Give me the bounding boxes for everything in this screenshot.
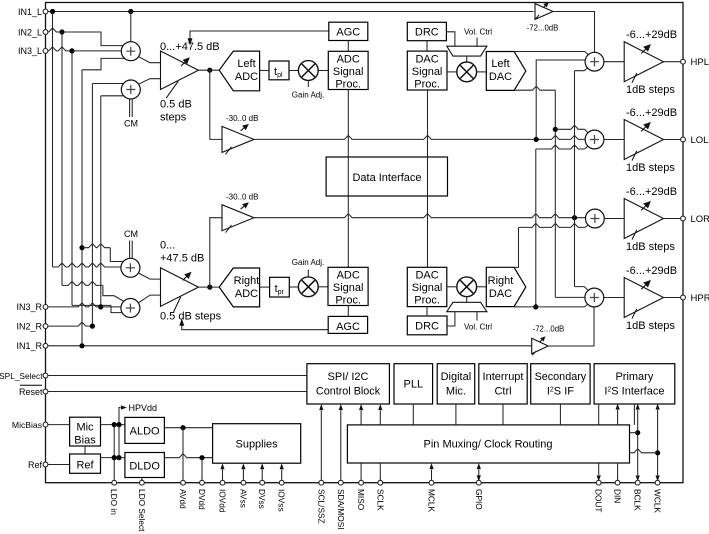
stub vol ctrl left (476, 38, 478, 47)
wire IN3_R (48, 303, 101, 307)
svg-text:Left: Left (491, 58, 509, 70)
svg-text:Interrupt: Interrupt (483, 371, 524, 383)
wire Reset to control block (48, 391, 307, 393)
left PGA amplifier 0..+47.5dB (161, 51, 199, 90)
right analog bypass amp -30..0dB (222, 205, 254, 231)
wire mixer4 out (139, 295, 161, 303)
node IN2_R junction (90, 324, 95, 329)
svg-text:Bias: Bias (74, 435, 96, 447)
wire IOVss into Supplies (281, 470, 283, 483)
bottom pin DVdd (200, 480, 205, 485)
pin Ref (43, 462, 48, 467)
wire mixer to HPR amp (604, 297, 625, 299)
wire IN1_R vertical bus (81, 70, 83, 346)
svg-text:PLL: PLL (404, 379, 424, 391)
svg-text:DVss: DVss (257, 489, 267, 509)
wire Secondary I2S to pin muxing (559, 404, 561, 425)
svg-text:CM: CM (124, 119, 138, 129)
output amplifier LOR -6..+29dB (624, 199, 663, 239)
wire IN1_R branch to right CM mixer (82, 244, 110, 248)
wire IN3_L vertical bus (71, 51, 73, 306)
wire IN1_L to -72dB amp (48, 11, 534, 13)
wire LDAC into HPR mixer (555, 296, 585, 298)
svg-text:0...: 0... (160, 240, 175, 252)
output amplifier HPR -6..+29dB (624, 278, 663, 318)
block Right DAC (486, 267, 526, 306)
svg-text:SCL/SSZ: SCL/SSZ (316, 489, 326, 524)
svg-text:DLDO: DLDO (129, 461, 160, 473)
svg-text:Right: Right (488, 275, 514, 287)
wire DIN lower (617, 463, 619, 483)
svg-text:Secondary: Secondary (535, 371, 587, 383)
block Mic Bias (70, 417, 101, 446)
block DRC (right) (407, 316, 447, 335)
input pin IN2_L (43, 30, 48, 35)
wire MAR to LOR mixer (254, 214, 585, 218)
svg-text:-6...+29dB: -6...+29dB (626, 186, 677, 198)
wire MicBias block to ALDO (101, 424, 125, 426)
svg-text:IOVss: IOVss (277, 489, 287, 512)
wire DVss into Supplies (261, 470, 263, 483)
svg-text:Left: Left (237, 58, 255, 70)
svg-text:SPL_Select: SPL_Select (0, 371, 43, 381)
wire Right DAC top out to LOR mixer (514, 227, 518, 267)
wire Ref block to DLDO (101, 457, 125, 459)
svg-text:-6...+29dB: -6...+29dB (626, 29, 677, 41)
bus MAL vertical to HPL (536, 60, 585, 139)
node WCLK tap (655, 450, 660, 455)
wire LDO in riser (113, 425, 115, 483)
LOR amp gain arrow (641, 206, 645, 210)
svg-text:WCLK: WCLK (653, 489, 663, 513)
pin MicBias (43, 422, 48, 427)
svg-text:DRC: DRC (415, 27, 439, 39)
block Ref (70, 454, 101, 473)
bus RDAC cross vertical (535, 149, 537, 307)
wire IN3_L (48, 47, 72, 51)
svg-text:Signal: Signal (412, 282, 443, 294)
bus MAR vertical (574, 71, 576, 287)
wire DACproc to multiplier (447, 71, 457, 73)
wire PGA2 to Right ADC (198, 286, 219, 288)
svg-text:Ref: Ref (28, 460, 43, 470)
wire MISO (360, 463, 362, 483)
svg-text:Signal: Signal (412, 66, 443, 78)
svg-text:DAC: DAC (489, 71, 512, 83)
svg-text:Reset: Reset (19, 387, 43, 397)
svg-text:-30..0 dB: -30..0 dB (226, 192, 258, 201)
svg-text:1dB steps: 1dB steps (626, 84, 675, 96)
wire Left DAC top out to HPL mixer (514, 52, 589, 56)
svg-text:DOUT: DOUT (594, 489, 604, 513)
right bypass amp arrow (241, 206, 244, 209)
wire multiplier to ADC proc (318, 70, 328, 72)
svg-text:-6...+29dB: -6...+29dB (626, 265, 677, 277)
svg-text:LOL: LOL (691, 135, 709, 146)
wire WCLK to pin muxing (630, 449, 658, 453)
output pin HPL (681, 59, 686, 64)
svg-text:Mic: Mic (76, 422, 94, 434)
wire LDAC into LOL mixer (555, 126, 584, 130)
svg-text:DIN: DIN (613, 489, 623, 503)
attenuator -72..0dB (IN1_R) (532, 338, 549, 354)
wire DACproc-R to multiplier (447, 286, 457, 288)
wire ADC to tpl (260, 70, 269, 72)
block Data Interface (326, 157, 447, 196)
svg-text:Data Interface: Data Interface (352, 172, 421, 184)
wire tpr to multiplier (289, 286, 298, 288)
wire BCLK to pin muxing (630, 432, 638, 434)
node IN3_R junction (98, 304, 103, 309)
wire IN1_R to left mixer1 (82, 58, 126, 69)
multiplier volume (right DAC) (457, 277, 477, 297)
wire bottom attenuator to HPR mixer (548, 307, 594, 346)
wire IN1_L vertical bus (52, 12, 54, 268)
wire IN2_L jog down (103, 285, 125, 302)
block Right ADC (219, 268, 259, 307)
bottom pin DOUT (596, 480, 601, 485)
wire cross into LOL mixer (536, 145, 585, 149)
svg-text:Signal: Signal (333, 66, 364, 78)
bus LDAC vertical (554, 90, 556, 297)
left analog bypass amp -30..0dB (222, 126, 254, 152)
wire SDA/MOSI (340, 411, 342, 483)
block Left DAC (486, 52, 526, 91)
svg-text:Mic.: Mic. (446, 386, 466, 398)
volume control trapezoid (left) (447, 46, 487, 56)
wire DOUT lower (598, 463, 600, 475)
wire Digital Mic to pin muxing (455, 404, 457, 425)
wire IN3_R to left CM mixer (101, 95, 126, 97)
wire IN3_L into mixer1 (72, 50, 126, 52)
summing mixer 1 (left PGA +) (121, 42, 140, 61)
wire IN2_R (48, 323, 93, 327)
left PGA gain arrow (181, 62, 185, 66)
output mixer HPL (585, 52, 604, 71)
svg-text:0.5 dB steps: 0.5 dB steps (160, 311, 222, 323)
input pin Reset (active low) (43, 389, 48, 394)
output mixer LOR (586, 209, 605, 228)
bottom pin BCLK (635, 480, 640, 485)
block t_pl interpolation (269, 61, 289, 80)
multiplier gain adj (right ADC) (298, 277, 318, 297)
bottom pin DVss (260, 480, 265, 485)
svg-text:DAC: DAC (415, 270, 438, 282)
wire PGA1 to bypass amp (210, 70, 222, 139)
svg-text:AVdd: AVdd (178, 489, 188, 509)
block Digital Mic (437, 364, 475, 404)
wire amp to HPR pin (664, 297, 684, 299)
node MAL to HPL branch (534, 137, 539, 142)
node DVdd tap (199, 455, 204, 460)
output mixer LOL (585, 130, 604, 149)
wire SCL/SSZ (320, 411, 322, 483)
block Primary I2S Interface (594, 364, 675, 404)
bottom pin MCLK (429, 480, 434, 485)
svg-text:HPL: HPL (691, 57, 709, 68)
HPR amp gain arrow (641, 285, 645, 289)
arrow LDO Select into DLDO (140, 478, 144, 484)
block AGC (left) (329, 22, 368, 40)
block SPI/I2C Control Block (307, 364, 390, 404)
wire mixer2 out (139, 79, 161, 85)
wire DRC-R to vol ctrl (447, 312, 455, 326)
bus ADC-L to Data Interface (347, 90, 349, 268)
bottom pin MISO (359, 480, 364, 485)
svg-text:IN1_R: IN1_R (16, 341, 42, 351)
svg-text:1dB steps: 1dB steps (626, 320, 675, 332)
wire IN3_L jog down (111, 305, 126, 312)
wire WCLK (657, 410, 659, 475)
block Left ADC (219, 51, 259, 91)
output pin LOR (681, 216, 686, 221)
svg-text:Ref: Ref (76, 460, 94, 472)
svg-text:IN1_L: IN1_L (18, 7, 42, 17)
input pin IN3_L (43, 49, 48, 54)
wire multiplier to Right DAC (477, 286, 487, 288)
summing mixer 3 (right CM) (121, 258, 140, 277)
svg-text:-30..0 dB: -30..0 dB (226, 114, 258, 123)
wire GPIO (478, 470, 480, 483)
svg-text:LDO Select: LDO Select (137, 489, 147, 532)
wire AVss into Supplies (242, 470, 244, 483)
bottom pin AVdd (181, 480, 186, 485)
wire multiplier to ADC proc right (318, 286, 328, 288)
svg-text:Control Block: Control Block (316, 386, 381, 398)
wire MAL to LOL mixer (254, 136, 585, 140)
bottom pin IOVdd (220, 480, 225, 485)
svg-text:IN2_R: IN2_R (16, 321, 42, 331)
block DRC (left) (407, 22, 446, 40)
svg-text:ADC: ADC (337, 270, 360, 282)
wire IN3_L cross to right mixer4 (72, 304, 111, 306)
svg-text:-6...+29dB: -6...+29dB (626, 107, 677, 119)
wire AVdd riser (182, 428, 184, 483)
wire Interrupt Ctrl to pin muxing (502, 404, 504, 425)
svg-text:Signal: Signal (333, 282, 364, 294)
svg-text:1dB steps: 1dB steps (626, 162, 675, 174)
wire IOVdd into Supplies (222, 470, 224, 483)
wire ADC to tpr (260, 286, 270, 288)
svg-text:DAC: DAC (489, 288, 512, 300)
wire IN2_R vertical bus (91, 84, 93, 327)
svg-text:MCLK: MCLK (427, 489, 437, 513)
output mixer HPR (585, 288, 604, 307)
wire DVdd riser (201, 458, 203, 483)
svg-text:BCLK: BCLK (633, 489, 643, 511)
arrow AGC-R control (179, 319, 184, 326)
bottom pin SDA/MOSI (338, 480, 343, 485)
wire IN1_L down to left mixer1 (130, 12, 132, 42)
wire Primary I2S to pin muxing (633, 404, 635, 425)
input pin IN1_L (43, 9, 48, 14)
wire DOUT upper (598, 404, 600, 425)
stub trapezoid to multiplier right (466, 297, 468, 303)
attenuator arrow bottom (540, 340, 542, 342)
stub trapezoid to multiplier (466, 56, 468, 62)
svg-text:Primary: Primary (615, 371, 653, 383)
svg-text:SDA/MOSI: SDA/MOSI (336, 489, 346, 530)
svg-text:IN2_L: IN2_L (18, 27, 42, 37)
right PGA gain arrow (183, 277, 187, 281)
svg-text:ADC: ADC (235, 288, 258, 300)
svg-text:DAC: DAC (415, 54, 438, 66)
node RDAC cross (533, 304, 538, 309)
node LDO/ALDO joints (112, 422, 117, 427)
stub gain adj left (307, 80, 309, 87)
svg-text:steps: steps (160, 112, 187, 124)
wire DLDO out to Supplies (164, 454, 212, 458)
svg-text:HPVdd: HPVdd (129, 403, 158, 413)
svg-text:Gain Adj.: Gain Adj. (292, 91, 324, 100)
svg-text:Vol. Ctrl: Vol. Ctrl (464, 323, 492, 332)
svg-text:MicBias: MicBias (12, 420, 42, 430)
svg-text:LDO in: LDO in (109, 489, 119, 515)
wire AGC-R to PGA arrow (182, 324, 328, 330)
node LDAC to LOL (553, 127, 558, 132)
arrow HPVdd (121, 405, 127, 409)
svg-text:Proc.: Proc. (414, 295, 440, 307)
wire AGC-R to ADC proc (347, 306, 349, 317)
svg-text:SPI/ I2C: SPI/ I2C (328, 371, 369, 383)
node IN1_L to left mixer (128, 9, 133, 14)
svg-text:LOR: LOR (691, 214, 709, 225)
output amplifier HPL -6..+29dB (624, 42, 663, 82)
wire multiplier to Left DAC (477, 71, 487, 73)
wire Ref pin to block (48, 464, 70, 466)
volume control trapezoid (right) (447, 302, 487, 311)
wire mixer3 out (139, 273, 161, 279)
arrow AGC-L control (188, 38, 193, 45)
input pin IN2_R (43, 324, 48, 329)
bus DAC-L to Data Interface (427, 90, 429, 267)
HPL amp gain arrow (641, 49, 645, 53)
output amplifier LOL -6..+29dB (624, 120, 663, 160)
multiplier volume (left DAC) (457, 62, 477, 82)
wire mixer to HPL amp (604, 61, 624, 63)
wire IN2_R to left CM mixer (92, 83, 126, 85)
wire AGC-L to ADC proc (347, 41, 349, 52)
input pin IN3_R (43, 305, 48, 310)
node IN3_L junction (69, 48, 74, 53)
svg-text:SCLK: SCLK (375, 489, 385, 511)
svg-text:GPIO: GPIO (474, 489, 484, 510)
svg-text:HPR: HPR (691, 293, 709, 304)
svg-text:ADC: ADC (235, 71, 258, 83)
bottom pin WCLK (655, 480, 660, 485)
svg-text:ALDO: ALDO (130, 426, 160, 438)
svg-text:0.5 dB: 0.5 dB (160, 99, 192, 111)
bottom pin SCLK (378, 480, 383, 485)
bottom pin GPIO (476, 480, 481, 485)
svg-text:Digital: Digital (441, 371, 472, 383)
wire PLL to pin muxing (412, 404, 414, 425)
svg-text:Supplies: Supplies (235, 439, 278, 451)
block ADC Signal Proc (right) (328, 267, 368, 305)
summing mixer 2 (left PGA -/CM) (121, 80, 140, 99)
wire MAR into HPL mixer (575, 68, 589, 71)
svg-text:AGC: AGC (336, 27, 360, 39)
wire top attenuator to HPL mixer (553, 12, 595, 53)
wire MAR into HPR mixer (575, 287, 589, 291)
wire Left DAC bottom out (514, 87, 555, 91)
bottom pin AVss (241, 480, 246, 485)
wire AGC-L to PGA arrow (190, 31, 329, 40)
svg-text:Proc.: Proc. (335, 295, 361, 307)
input pin SPL_Select (43, 373, 48, 378)
node IN2_L junction (59, 29, 64, 34)
wire IN2_L jog into mixer1 (62, 32, 126, 46)
wire MicBias pin to block (48, 424, 70, 426)
svg-text:Right: Right (234, 275, 260, 287)
svg-text:MISO: MISO (356, 489, 366, 511)
node BCLK tap (635, 430, 640, 435)
node AVdd tap (180, 425, 185, 430)
wire Mic Bias to Ref (84, 446, 86, 454)
bottom pin LDO Select (140, 480, 145, 485)
svg-text:CM: CM (124, 229, 138, 239)
node IN1_R junction (79, 343, 84, 348)
output pin LOL (681, 137, 686, 142)
svg-text:Ctrl: Ctrl (494, 386, 511, 398)
wire MCLK (431, 470, 433, 483)
wire mixer to LOR amp (604, 218, 624, 220)
wire DRC-L to DAC proc (426, 41, 428, 51)
wire mixer to LOL amp (604, 139, 624, 141)
node MAR branch (572, 215, 577, 220)
input pin IN1_R (43, 343, 48, 348)
wire IN1_L cross to right CM mixer (53, 263, 127, 267)
node IN1_L bus junction (50, 9, 55, 14)
svg-text:AGC: AGC (336, 321, 360, 333)
svg-text:Proc.: Proc. (335, 79, 361, 91)
bottom pin SCL/SSZ (319, 480, 324, 485)
wire HPVdd feed (119, 408, 121, 458)
node IN1_R branch (79, 245, 84, 250)
svg-text:Vol. Ctrl: Vol. Ctrl (464, 28, 492, 37)
attenuator -72..0dB (IN1_L) (535, 4, 553, 20)
bottom pin IOVss (279, 480, 284, 485)
wire IN2_L (48, 28, 62, 32)
attenuator arrow top (543, 6, 545, 8)
bottom pin DIN (615, 480, 620, 485)
LOL amp gain arrow (641, 127, 645, 131)
wire DIN upper (617, 410, 619, 425)
block PLL (394, 364, 433, 404)
svg-text:Gain Adj.: Gain Adj. (292, 258, 324, 267)
wire DRC-R to DAC proc (426, 307, 428, 316)
bus DAC-L through data interface (427, 157, 429, 196)
node left PGA output (207, 68, 212, 73)
block Secondary I2S IF (531, 364, 590, 404)
CM connection (right) (129, 241, 131, 259)
bus ADC-L through data interface (347, 157, 349, 196)
svg-text:ADC: ADC (337, 54, 360, 66)
block Pin Muxing / Clock Routing (347, 425, 629, 463)
svg-text:AVss: AVss (238, 489, 248, 508)
wire DRC-L to vol ctrl (446, 32, 455, 46)
wire IN2_L vertical bus (61, 32, 63, 285)
wire tpl to multiplier (289, 70, 298, 72)
wire SCLK (379, 463, 381, 483)
wire IN3_R vertical bus (100, 96, 102, 307)
wire amp to HPL pin (664, 61, 684, 63)
CM connection (left) (129, 99, 131, 117)
wire SPL_Select to control block (48, 375, 307, 377)
svg-text:I2S Interface: I2S Interface (604, 386, 664, 398)
wire IN3_R into mixer4 (101, 306, 126, 308)
svg-text:IN3_L: IN3_L (18, 46, 42, 56)
